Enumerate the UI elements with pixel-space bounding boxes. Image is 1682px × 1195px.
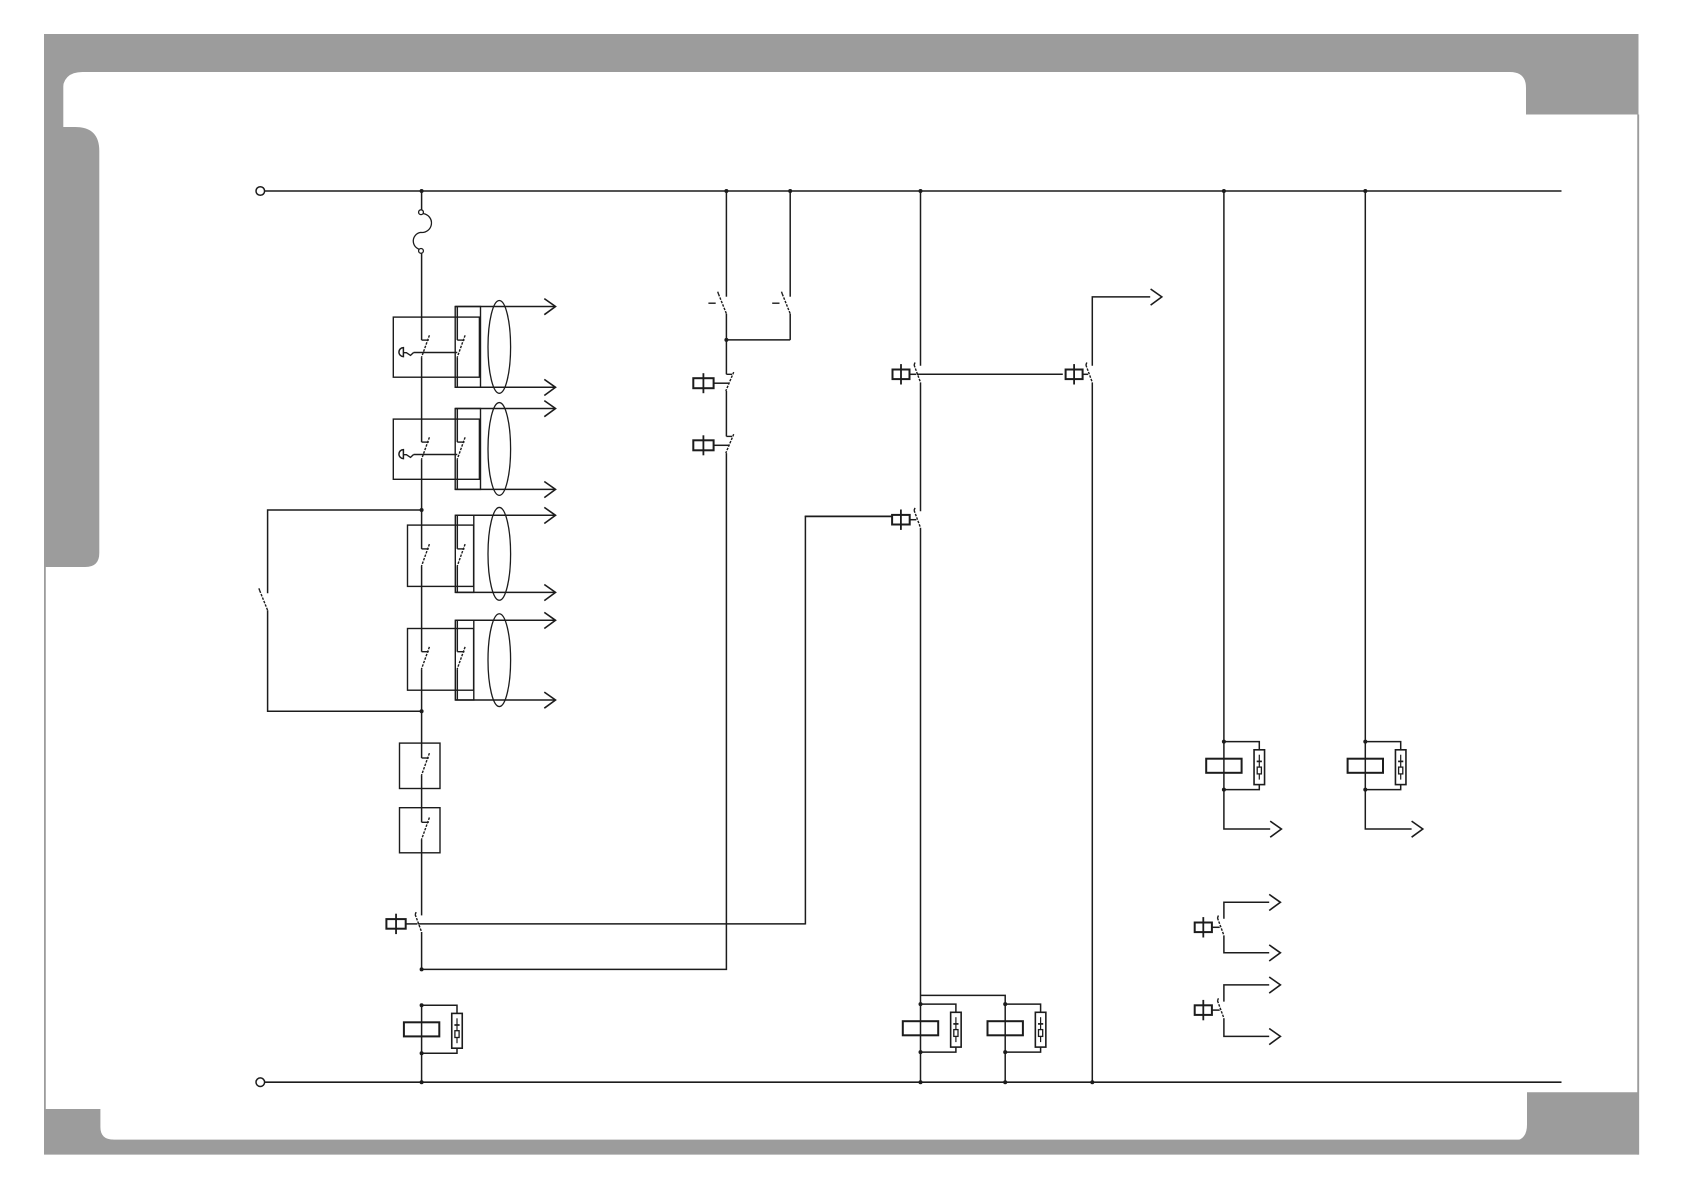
switch S2b monitor contact — [457, 437, 465, 459]
wire RY4 to output arrow — [1224, 790, 1270, 829]
switch S4b monitor contact — [457, 647, 465, 669]
interlock switch box A4 — [408, 629, 474, 691]
wire RY5 snubber bottom branch — [1365, 785, 1400, 790]
relay contact K3 with coil (fed from lock link) — [805, 508, 921, 530]
wire B3 switch lead upper — [456, 515, 458, 549]
wire K6 top arrow — [1224, 985, 1269, 1002]
switch S4a contact on main line — [421, 647, 429, 669]
snubber RC network RY1 — [452, 1013, 463, 1048]
junction dot top bus at column M — [919, 189, 923, 193]
switch S7 in box D2 — [421, 818, 429, 840]
connector cable loop CN1 — [488, 301, 511, 394]
wire RY5 snubber top branch — [1365, 742, 1400, 750]
junction dot top bus at column R1 — [1222, 189, 1226, 193]
wire column C1 thermostat1 to thermostat2 — [725, 391, 727, 436]
junction dot bracket bottom tap — [420, 709, 424, 713]
switch S1a contact on main line — [421, 335, 429, 357]
wire monitor link to column C1 — [422, 453, 727, 969]
wire block 4 top lead to connector — [455, 619, 555, 621]
relay coil RY4 — [1206, 759, 1241, 773]
interlock switch box A1 — [393, 317, 479, 377]
wire column H K4 to bottom bus — [1091, 382, 1093, 1082]
wire column C2 from top bus — [789, 191, 791, 297]
monitor switch box B2 — [455, 409, 480, 490]
junction dot bracket top tap — [420, 508, 424, 512]
wire B1 switch lead upper — [456, 307, 458, 341]
snubber RC network RY2 — [951, 1012, 962, 1047]
wire bracket top segment — [268, 510, 422, 593]
wire RY1 snubber bottom branch — [422, 1048, 457, 1053]
junction RY4 top node — [1222, 740, 1226, 744]
wire RY4 snubber bottom branch — [1224, 785, 1259, 790]
junction RY1 top node — [420, 1003, 424, 1007]
push button actuator P1 — [399, 348, 457, 357]
wire column M K2 to K3 — [920, 382, 922, 511]
wire column H up-leg and arrow out — [1092, 297, 1150, 366]
wire column C2 below S9 — [789, 314, 791, 340]
thermostat TH2 (magnetron) — [693, 434, 733, 455]
junction dot bottom bus at column M — [919, 1080, 923, 1084]
wire B3 switch lead lower — [456, 567, 458, 593]
junction dot top bus at column C2 — [788, 189, 792, 193]
wire column M from top bus — [920, 191, 922, 366]
connector cable loop CN3 — [488, 507, 511, 600]
wire B4 switch lead lower — [456, 669, 458, 700]
wire bottom supply bus — [265, 1081, 1562, 1083]
junction dot top bus at column R2 — [1363, 189, 1367, 193]
relay contact K6 with coil — [1195, 998, 1224, 1020]
wire B4 switch lead upper — [456, 620, 458, 651]
wire column M K3 down to relay RY2 — [920, 528, 922, 1004]
connector cable loop CN2 — [488, 403, 511, 496]
wire RY2 snubber bottom branch — [921, 1047, 956, 1052]
switch S6 in box D1 — [421, 753, 429, 775]
junction dot bottom bus at column M2 — [1003, 1080, 1007, 1084]
switch S8 relay contact (normally open) — [708, 292, 726, 314]
junction RY5 top node — [1363, 740, 1367, 744]
wire main column block2 to block3 — [421, 460, 423, 549]
wire RY2 through coil — [920, 1004, 922, 1052]
junction RY1 bottom node — [420, 1051, 424, 1055]
wire RY3 snubber bottom branch — [1005, 1047, 1040, 1052]
door switch box D1 — [400, 743, 441, 788]
wire B2 switch lead upper — [456, 409, 458, 443]
wire top supply bus — [265, 190, 1562, 192]
junction dot bottom bus at column H — [1090, 1080, 1094, 1084]
junction RY3 top node — [1003, 1002, 1007, 1006]
relay coil RY3 — [988, 1021, 1023, 1035]
wire block 1 top lead to connector — [455, 306, 555, 308]
wire RY2 snubber top branch — [921, 1004, 956, 1012]
wire column R1 from top bus — [1223, 191, 1225, 742]
relay contact K1 with coil (door lock) — [386, 912, 805, 934]
wire link lock contact riser — [805, 517, 892, 925]
thermostat TH1 (oven cavity) — [693, 372, 733, 393]
wire bracket bottom segment — [268, 610, 422, 711]
snubber RC network RY5 — [1395, 750, 1406, 785]
wire K5 bottom arrow — [1224, 935, 1269, 952]
wire RY4 through coil — [1223, 742, 1225, 790]
switch S3a contact on main line — [421, 544, 429, 566]
terminal circle, top-left supply — [256, 187, 265, 196]
wire column M RY2 to bottom bus — [920, 1052, 922, 1082]
push button actuator P2 — [399, 450, 457, 459]
wire RY3 through coil — [1004, 1004, 1006, 1052]
wire block 4 bottom lead to connector — [455, 699, 555, 701]
wire block 2 top lead to connector — [455, 408, 555, 410]
wire block 3 bottom lead to connector — [455, 591, 555, 593]
wire main column box1 to box2 — [421, 776, 423, 823]
relay coil RY5 — [1348, 759, 1383, 773]
switch S2a contact on main line — [421, 437, 429, 459]
relay contact K2 with coil — [893, 363, 1063, 385]
switch S9 relay contact (normally open) — [772, 292, 790, 314]
relay contact K5 with coil — [1195, 916, 1224, 938]
wire main column lock contact to junction — [421, 932, 423, 969]
relay contact K4 with coil — [1066, 363, 1093, 385]
wire tie C1-C2 — [726, 339, 790, 341]
connector cable loop CN4 — [488, 614, 511, 707]
monitor switch box B4 — [455, 620, 474, 700]
junction dot tie at C1 — [724, 338, 728, 342]
wire block 2 bottom lead to connector — [455, 488, 555, 490]
wire block 3 top lead to connector — [455, 514, 555, 516]
wire column C1 to thermostat 1 — [725, 340, 727, 374]
interlock switch box A2 — [393, 419, 479, 479]
junction RY2 bottom node — [919, 1050, 923, 1054]
junction dot top bus at column C1 — [724, 189, 728, 193]
snubber RC network RY4 — [1254, 750, 1265, 785]
wire main column block3 to block4 — [421, 567, 423, 652]
wire RY5 to output arrow — [1365, 790, 1411, 829]
junction dot main column monitor tap — [420, 967, 424, 971]
wire branch M to M2 — [921, 995, 1006, 1004]
junction dot bottom bus at main column — [420, 1080, 424, 1084]
junction RY3 bottom node — [1003, 1050, 1007, 1054]
wire column C1 from top bus — [725, 191, 727, 297]
wire main column from top bus to fuse — [421, 191, 423, 210]
wire K5 top arrow — [1224, 902, 1269, 919]
wire K6 bottom arrow — [1224, 1018, 1269, 1036]
wire RY5 through coil — [1364, 742, 1366, 790]
wire main column box2 to lock contact — [421, 840, 423, 916]
wire column C1 below S8 — [725, 314, 727, 340]
switch S5 bypass contact (normally open) — [259, 588, 268, 610]
wire main column relay RY1 to bottom bus — [421, 1053, 423, 1082]
wire RY4 snubber top branch — [1224, 742, 1259, 750]
junction RY4 bottom node — [1222, 788, 1226, 792]
interlock switch box A3 — [408, 525, 474, 586]
junction dot top bus at main column — [420, 189, 424, 193]
monitor switch box B3 — [455, 515, 474, 592]
wire column R2 from top bus — [1364, 191, 1366, 742]
junction RY2 top node — [919, 1002, 923, 1006]
relay coil RY2 — [903, 1021, 938, 1035]
snubber RC network RY3 — [1035, 1012, 1046, 1047]
relay coil RY1 — [404, 1022, 439, 1036]
wire RY1 snubber top branch — [422, 1005, 457, 1013]
wire main column block4 to box1 — [421, 669, 423, 758]
terminal circle, bottom-left supply — [256, 1078, 265, 1087]
monitor switch box B1 — [455, 307, 480, 388]
wire B2 switch lead lower — [456, 460, 458, 490]
wire RY3 snubber top branch — [1005, 1004, 1040, 1012]
door switch box D2 — [400, 808, 441, 853]
switch S1b monitor contact — [457, 335, 465, 357]
wire RY1 through coil — [421, 1005, 423, 1053]
wire main column block1 to block2 — [421, 358, 423, 442]
wire B1 switch lead lower — [456, 358, 458, 388]
wire block 1 bottom lead to connector — [455, 386, 555, 388]
junction RY5 bottom node — [1363, 788, 1367, 792]
wire column M2 RY3 to bottom bus — [1004, 1052, 1006, 1082]
wire main column fuse to interlock block 1 — [421, 254, 423, 341]
fuse F1 (thermal breaker) — [413, 210, 431, 254]
switch S3b monitor contact — [457, 544, 465, 566]
